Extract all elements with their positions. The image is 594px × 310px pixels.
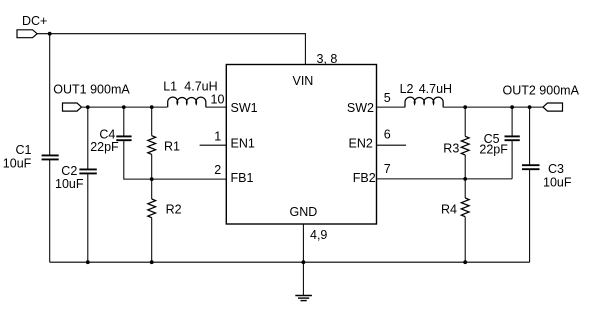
node junction C2 top (86, 105, 90, 109)
svg-text:GND: GND (290, 205, 318, 219)
connector J1 DC+ (17, 14, 47, 38)
capacitor C5 (479, 132, 519, 157)
wire C4 lower lead to FB1 net (124, 140, 152, 179)
node junction C3 top (528, 105, 532, 109)
svg-text:OUT1 900mA: OUT1 900mA (53, 82, 130, 96)
svg-text:1: 1 (214, 129, 221, 143)
inductor L2 (400, 82, 452, 107)
svg-text:OUT2 900mA: OUT2 900mA (503, 83, 580, 97)
wire EN1 pin stub (200, 144, 227, 146)
svg-text:SW1: SW1 (231, 101, 258, 115)
svg-text:10uF: 10uF (55, 177, 84, 191)
wire C2 lower lead to ground rail (87, 174, 89, 263)
svg-text:FB2: FB2 (353, 171, 376, 185)
wire SW2 pin to L2 (377, 106, 405, 108)
wire GND pin down to ground rail (302, 224, 304, 262)
svg-text:7: 7 (384, 162, 391, 176)
svg-text:10uF: 10uF (3, 156, 32, 170)
wire C4 branch upper (123, 107, 125, 136)
svg-text:6: 6 (384, 127, 391, 141)
svg-text:SW2: SW2 (347, 101, 374, 115)
wire R3 lower lead (464, 155, 466, 179)
svg-text:C1: C1 (16, 143, 32, 157)
svg-text:4.7uH: 4.7uH (184, 80, 217, 94)
svg-text:DC+: DC+ (22, 14, 47, 28)
node junction R3 top (463, 105, 467, 109)
node junction rail C2 (86, 260, 90, 264)
wire ground stem (302, 262, 304, 295)
svg-text:22pF: 22pF (90, 140, 119, 154)
connector J3 OUT2 (503, 83, 580, 111)
node junction DC+ (48, 32, 52, 36)
svg-text:R4: R4 (441, 202, 457, 216)
svg-text:EN1: EN1 (231, 137, 255, 151)
wire C3 branch upper (529, 107, 531, 165)
svg-text:L2: L2 (400, 82, 414, 96)
resistor R3 (443, 136, 469, 155)
node junction ground rail (302, 260, 306, 264)
wire top VIN rail (37, 34, 305, 65)
node junction R1 top (150, 105, 154, 109)
svg-text:FB1: FB1 (231, 171, 254, 185)
svg-text:R1: R1 (164, 139, 180, 153)
wire C5 lower lead to FB2 net (511, 140, 513, 179)
node junction C4 top (122, 105, 126, 109)
svg-text:5: 5 (384, 91, 391, 105)
node junction C5 top (510, 105, 514, 109)
svg-text:2: 2 (214, 163, 221, 177)
wire L2 to OUT2 (443, 106, 543, 108)
svg-text:C3: C3 (548, 162, 564, 176)
wire R2 upper lead (151, 179, 153, 199)
svg-text:4.7uH: 4.7uH (419, 82, 452, 96)
svg-text:EN2: EN2 (349, 137, 373, 151)
svg-text:R3: R3 (443, 142, 459, 156)
resistor R4 (441, 198, 469, 217)
wire C5 branch upper (511, 107, 513, 136)
wire C3 lower lead to ground rail (529, 169, 531, 262)
resistor R2 (148, 199, 182, 218)
svg-text:VIN: VIN (293, 74, 314, 88)
svg-text:4,9: 4,9 (310, 228, 327, 242)
wire C1 lower lead to ground rail (49, 160, 51, 263)
capacitor C4 (90, 128, 131, 155)
capacitor C1 (3, 143, 59, 170)
wire R3 upper lead (464, 107, 466, 136)
connector J2 OUT1 (53, 82, 130, 111)
svg-text:R2: R2 (166, 202, 182, 216)
node junction rail R2 (150, 260, 154, 264)
svg-text:3, 8: 3, 8 (317, 52, 338, 66)
svg-text:22pF: 22pF (479, 143, 508, 157)
wire R4 upper lead (464, 179, 466, 198)
op-amp U1 regulator IC body (226, 65, 376, 225)
resistor R1 (148, 136, 180, 155)
wire FB2 pin to divider (377, 178, 513, 180)
wire DC+ vertical down to ground rail (upper segment) (49, 34, 51, 156)
capacitor C3 (522, 162, 572, 189)
inductor L1 (163, 80, 217, 108)
wire R4 lower lead to ground rail (464, 217, 466, 263)
svg-text:10uF: 10uF (543, 175, 572, 189)
wire EN2 pin stub (377, 144, 407, 146)
node junction rail R4 (463, 260, 467, 264)
wire OUT1 to SW1 (82, 106, 168, 108)
capacitor C2 (55, 164, 97, 191)
svg-text:10: 10 (211, 93, 225, 107)
wire ground rail (50, 261, 530, 263)
wire R2 lower lead to ground rail (151, 218, 153, 263)
wire L1 to SW1 pin (206, 106, 227, 108)
node junction FB1 (150, 177, 154, 181)
ground (295, 296, 312, 301)
wire R1 lower lead (151, 154, 153, 179)
wire FB1 to pin 2 (152, 178, 227, 180)
svg-text:L1: L1 (163, 80, 177, 94)
wire R1 upper lead (151, 107, 153, 136)
node junction FB2 (463, 177, 467, 181)
wire C2 branch upper (87, 107, 89, 169)
